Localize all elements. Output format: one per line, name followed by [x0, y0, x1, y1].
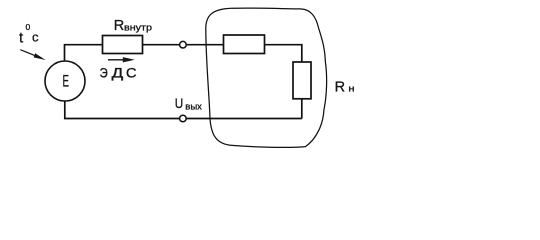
- wire top: corner above E to resistor R1: [65, 45, 103, 61]
- svg-text:0: 0: [26, 22, 31, 32]
- svg-text:U: U: [175, 95, 184, 111]
- wire bottom rail: from R3 corner left to bottom terminal: [186, 118, 302, 120]
- resistor R2 (inside device, horizontal) body: [224, 35, 265, 54]
- svg-text:c: c: [32, 30, 39, 45]
- svg-text:Д: Д: [112, 65, 124, 80]
- svg-text:вых: вых: [185, 102, 202, 113]
- svg-text:R: R: [114, 18, 124, 34]
- svg-text:внутр: внутр: [124, 22, 152, 33]
- label EDS: [100, 65, 137, 80]
- label Rn: [335, 79, 355, 95]
- svg-text:С: С: [126, 65, 137, 80]
- svg-text:Э: Э: [100, 65, 108, 80]
- terminal top (open circle): [180, 41, 187, 48]
- label Rvnutr: [114, 18, 152, 34]
- svg-text:н: н: [348, 84, 354, 94]
- arrow from t0c toward E: [20, 50, 45, 60]
- wire: top terminal into device to resistor R2: [186, 44, 224, 46]
- wire: resistor R3 bottom down to bottom rail: [301, 99, 303, 119]
- terminal bottom (open circle): [180, 115, 187, 122]
- wire: bottom terminal to corner left of E: [65, 101, 180, 119]
- EMF direction arrow under R1: [108, 57, 135, 62]
- device enclosure blob: [206, 8, 327, 147]
- EMF source E circle: [45, 61, 85, 101]
- wire: resistor R2 to corner and down to resistor R3: [265, 45, 302, 62]
- resistor R1 (Rvnutr) body: [103, 36, 143, 54]
- svg-text:R: R: [335, 79, 345, 95]
- svg-text:E: E: [63, 72, 70, 91]
- label Uvyh: [175, 95, 202, 112]
- label t0c (temperature): [19, 22, 39, 47]
- resistor R3 (Rn load, vertical) body: [293, 62, 311, 99]
- wire: resistor R1 to top terminal: [143, 44, 181, 46]
